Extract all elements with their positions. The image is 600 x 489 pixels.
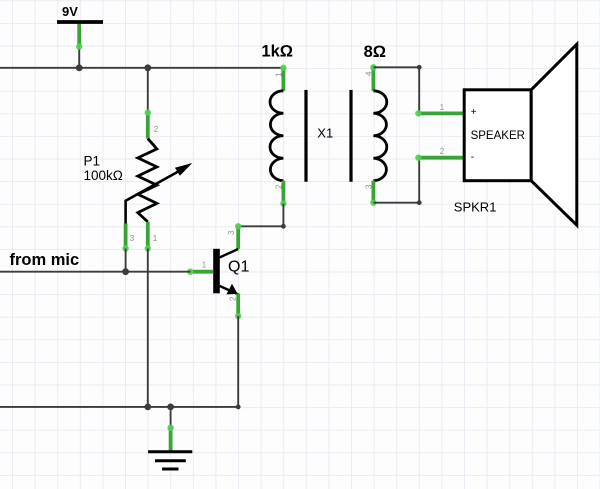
transformer X1 primary pin2 [281,181,285,204]
transformer X1 secondary pin4 [371,67,375,91]
speaker horn [531,44,577,225]
wire P1 pin1 down to bottom rail [147,249,149,407]
svg-text:2: 2 [154,125,159,134]
transistor Q1 emitter arrow [226,284,237,295]
wire secondary top to speaker [373,67,419,113]
junction [144,404,151,411]
speaker body [464,90,531,181]
battery 9V bar [57,20,103,24]
svg-text:1kΩ: 1kΩ [261,43,293,61]
svg-text:Q1: Q1 [228,258,249,275]
ground pin [169,428,173,452]
junction [76,64,83,71]
speaker pin1 [418,112,464,116]
svg-text:3: 3 [365,184,374,189]
svg-text:SPKR1: SPKR1 [454,200,497,215]
svg-text:+: + [471,107,477,118]
wire emitter down [237,316,239,407]
transistor Q1 pin1 base [190,270,213,274]
transistor Q1 emitter line [220,286,239,295]
bendpoint [417,200,422,205]
potentiometer P1 body [138,139,157,222]
svg-text:2: 2 [440,147,445,156]
svg-text:1: 1 [202,260,207,269]
transformer X1 secondary coil [373,91,386,181]
transistor Q1 collector line [220,249,239,258]
battery 9V pin [77,24,81,47]
svg-text:8Ω: 8Ω [364,43,386,61]
potentiometer P1 pin1 [146,222,150,249]
wire collector link [238,204,283,227]
ground symbol [148,452,192,469]
svg-text:X1: X1 [317,126,333,141]
svg-text:-: - [471,152,474,163]
svg-text:3: 3 [227,230,236,235]
transformer X1 primary coil [270,91,283,181]
svg-text:SPEAKER: SPEAKER [471,130,525,142]
transformer X1 primary pin1 [281,68,285,91]
speaker pin2 [418,156,464,160]
svg-text:2: 2 [229,296,238,301]
svg-text:from mic: from mic [10,251,80,269]
bendpoint [417,65,422,70]
wire 9V stub [78,47,80,68]
svg-text:P1: P1 [84,153,101,168]
svg-text:100kΩ: 100kΩ [84,168,123,183]
transformer X1 core [306,90,351,182]
potentiometer P1 pin3 [124,224,128,249]
potentiometer P1 wiper arrow [126,170,181,224]
svg-text:9V: 9V [62,4,78,19]
wire top rail [0,67,283,69]
wire P1 branch [147,68,149,113]
svg-text:1: 1 [440,103,445,112]
svg-text:1: 1 [275,72,284,77]
transistor Q1 pin3 collector [236,226,240,249]
junction [167,404,174,411]
wire wiper to mic rail [125,249,127,272]
wire bottom rail [0,406,238,408]
svg-text:3: 3 [130,234,135,243]
wire ground stub [170,407,172,428]
junction [144,64,151,71]
transistor Q1 base bar [213,249,220,293]
wire secondary bottom to speaker [373,158,419,203]
svg-text:1: 1 [153,234,158,243]
wire mic rail [0,271,190,273]
bendpoint [236,405,241,410]
svg-text:2: 2 [275,184,284,189]
potentiometer P1 pin2 [146,113,150,139]
bendpoint [281,224,286,229]
transistor Q1 pin2 emitter [236,294,240,317]
svg-text:4: 4 [365,71,374,76]
transformer X1 secondary pin3 [371,181,375,203]
junction [122,268,129,275]
